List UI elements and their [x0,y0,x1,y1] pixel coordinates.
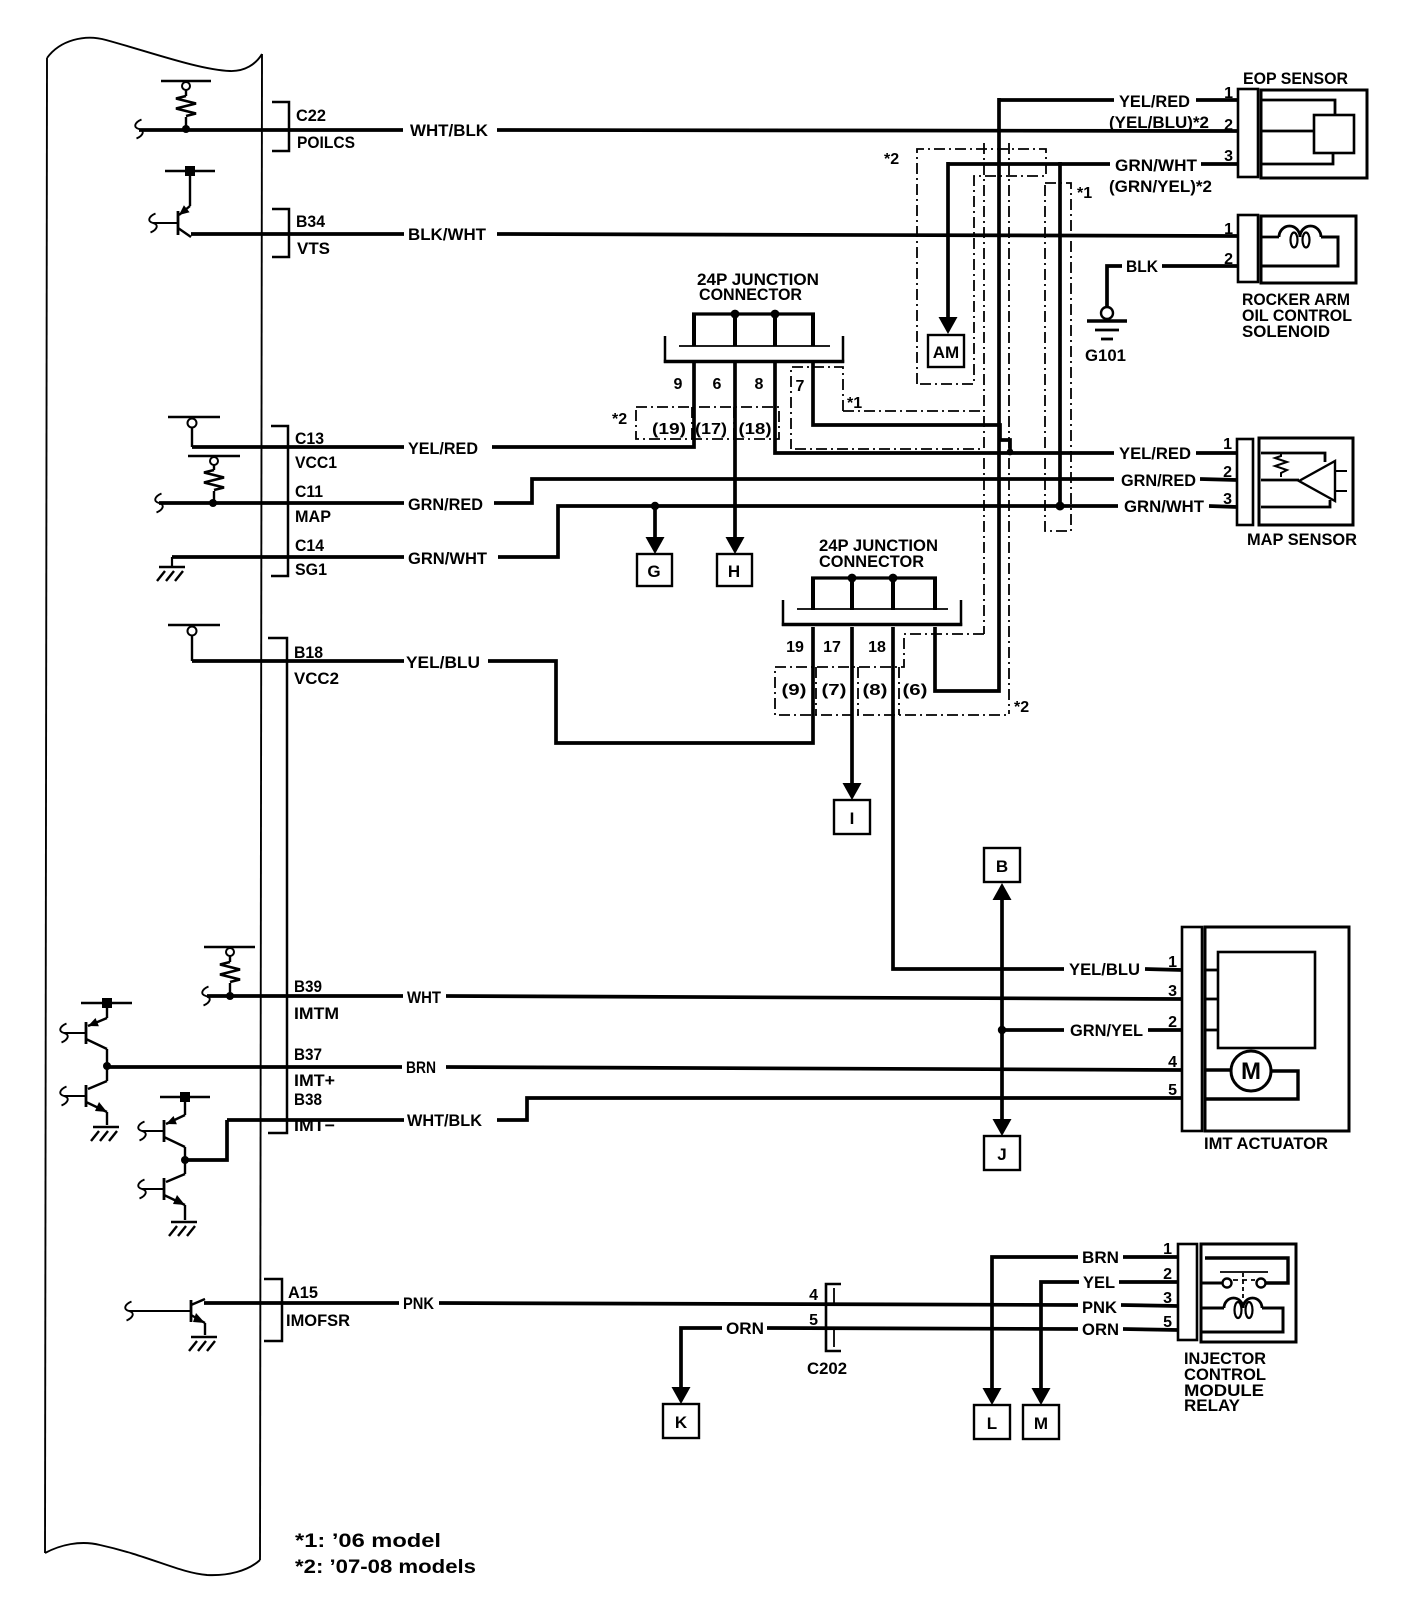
svg-text:GRN/YEL: GRN/YEL [1070,1021,1143,1040]
wire vertical YEL/RED drop to junction pin (6) [935,98,999,691]
wire GRN/WHT *1 branch [1058,162,1062,503]
svg-text:H: H [728,562,740,581]
wire junction pin 7 *1 jog to YEL/RED [813,363,1010,452]
connector arrow M [1032,1388,1051,1405]
rocker arm oil control solenoid body with inductor [1261,216,1356,283]
pull-up resistor at B39 [204,947,255,994]
dash-dot outline *2 around junction row (9)(7)(8)(6) [775,634,1009,715]
wire B34 BLK/WHT to solenoid pin 1 [191,232,404,236]
connector bracket A15/IMOFSR [264,1279,282,1341]
wire H branch from junction pin 6 [733,363,737,539]
injector control module relay body [1201,1244,1296,1342]
wire B-J vertical [1000,898,1004,1122]
svg-text:(18): (18) [739,421,772,438]
svg-text:C13: C13 [295,429,324,448]
svg-text:WHT/BLK: WHT/BLK [407,1111,483,1130]
wire I branch from junction pin 17 [850,627,854,786]
svg-text:(7): (7) [822,682,847,699]
ground at C14 [171,557,173,566]
svg-text:PNK: PNK [1082,1298,1118,1317]
MAP sensor body [1259,438,1353,525]
wire GRN/YEL to IMT pin 2 [1002,1028,1064,1032]
svg-text:5: 5 [809,1312,818,1329]
wire B38 WHT/BLK to IMT pin 5 [227,1118,404,1122]
svg-text:K: K [675,1413,688,1432]
svg-text:*1: *1 [1077,185,1092,202]
IMT actuator body [1205,927,1349,1131]
junction dot GRN/WHT G tap [651,502,659,510]
svg-text:2: 2 [1224,251,1233,268]
svg-text:ORN: ORN [726,1319,764,1338]
connector arrow I [843,783,862,800]
svg-text:SOLENOID: SOLENOID [1242,322,1330,341]
svg-text:YEL/RED: YEL/RED [1119,92,1190,111]
svg-text:4: 4 [809,1287,818,1304]
svg-text:IMTM: IMTM [294,1004,339,1023]
pull-up resistor at C11 [188,456,240,501]
ground G101 [1087,307,1127,339]
dash-dot box *2 around AM branch [917,149,1046,384]
svg-text:8: 8 [755,376,764,393]
svg-text:GRN/RED: GRN/RED [408,495,483,514]
EOP sensor body [1261,90,1367,178]
svg-text:7: 7 [796,378,805,395]
svg-text:BLK: BLK [1126,257,1159,276]
svg-text:4: 4 [1168,1054,1177,1071]
svg-text:2: 2 [1168,1014,1177,1031]
injector control module relay connector bracket [1178,1244,1197,1340]
dash-dot box *1 around junction pin 7 [791,367,843,449]
svg-text:*2: *2 [884,151,899,168]
svg-text:G: G [647,562,660,581]
svg-text:SG1: SG1 [295,560,327,579]
wire AM branch [946,162,950,320]
wire junction pin 8 YEL/RED to MAP pin 1 [775,363,1114,453]
svg-text:M: M [1034,1414,1048,1433]
svg-text:J: J [997,1145,1006,1164]
connector bracket B18/B39/B37/B38 [268,638,287,1133]
connector bracket C13/C11/C14 [271,426,288,576]
svg-text:*1: ’06 model: *1: ’06 model [295,1531,441,1552]
in-line connector C202 [826,1284,841,1351]
svg-text:(GRN/YEL)*2: (GRN/YEL)*2 [1109,177,1212,196]
dash-dot corridor *1 of pin-7 wire [843,410,982,412]
junction dot *1 GRN/WHT meets MAP wire [1056,502,1065,511]
svg-text:1: 1 [1168,954,1177,971]
connector arrow G [646,537,665,554]
junction dot pin7 joins YEL/RED [1007,449,1014,456]
connector bracket C22/POILCS [272,102,289,151]
transistor Q6 at A15 [129,1299,205,1335]
wire junction pin 18 YEL/BLU to IMT pin 1 [893,627,1064,969]
svg-text:VCC2: VCC2 [294,669,339,688]
svg-text:YEL/BLU: YEL/BLU [406,653,480,672]
svg-text:(9): (9) [782,682,807,699]
svg-text:YEL/RED: YEL/RED [1119,444,1191,463]
svg-text:YEL: YEL [1083,1273,1115,1292]
wire YEL relay pin 2 to M [1041,1282,1079,1390]
svg-text:PNK: PNK [403,1294,435,1313]
svg-text:1: 1 [1224,85,1233,102]
connector arrow L [983,1388,1002,1405]
ECM/PCM module outline (torn-edge box) [45,38,262,1575]
svg-text:GRN/WHT: GRN/WHT [408,549,488,568]
svg-text:3: 3 [1168,983,1177,1000]
svg-text:(8): (8) [863,682,888,699]
svg-text:(6): (6) [903,682,928,699]
dash-dot box *2 around junction pins (19)(17)(18) [636,407,779,439]
connector arrow K [672,1387,691,1404]
svg-text:5: 5 [1168,1082,1177,1099]
dash-dot corridor *2 of EOP YEL/RED drop [983,143,985,634]
svg-text:5: 5 [1163,1314,1172,1331]
svg-text:1: 1 [1224,221,1233,238]
svg-text:POILCS: POILCS [297,133,355,152]
24P junction connector (upper) [664,314,844,363]
svg-text:*2: *2 [1014,699,1029,716]
svg-text:17: 17 [823,639,841,656]
wire C14 GRN/WHT to MAP pin 3 [172,555,404,559]
IMT actuator connector bracket [1182,927,1202,1131]
svg-text:A15: A15 [288,1283,318,1302]
wire BRN relay pin 1 to L [992,1257,1078,1390]
svg-text:C22: C22 [296,106,326,125]
svg-text:3: 3 [1224,148,1233,165]
svg-text:2: 2 [1224,117,1233,134]
wire GRN/WHT EOP pin 3 [1201,162,1238,166]
svg-text:WHT/BLK: WHT/BLK [410,121,489,140]
connector arrow AM [939,317,958,334]
connector arrow B (up) [993,883,1012,900]
wire C13 YEL/RED to junction pin 9 [192,445,404,449]
svg-text:BRN: BRN [1082,1248,1119,1267]
pull-up at B18 [168,625,220,661]
svg-text:IMT−: IMT− [294,1116,335,1135]
svg-text:IMT ACTUATOR: IMT ACTUATOR [1204,1134,1328,1153]
svg-text:*2: ’07-08 models: *2: ’07-08 models [295,1557,476,1578]
svg-text:B: B [996,857,1008,876]
wire stub hook at C22 input [135,120,142,139]
wire C11 GRN/RED to MAP pin 2 [159,501,404,505]
connector arrow J [993,1119,1012,1136]
svg-text:*2: *2 [612,411,627,428]
svg-text:L: L [987,1414,997,1433]
MAP sensor connector bracket [1237,439,1253,525]
transistor Q1 at B34 [153,171,215,237]
pull-up at C13 [168,417,220,447]
svg-text:CONNECTOR: CONNECTOR [819,552,924,571]
svg-text:VTS: VTS [297,239,330,258]
svg-text:AM: AM [933,343,959,362]
24P junction connector (lower) [782,578,962,626]
junction dot GRN/YEL tap on B-J line [998,1026,1006,1034]
transistor pair Q2/Q3 at B37 [64,1003,132,1125]
svg-text:6: 6 [713,376,722,393]
svg-text:2: 2 [1223,464,1232,481]
connector bracket B34/VTS [272,209,289,257]
wire C22 WHT/BLK to EOP pin 2 [139,128,403,132]
svg-text:*1: *1 [847,395,862,412]
svg-text:3: 3 [1223,491,1232,508]
svg-text:IMT+: IMT+ [294,1071,335,1090]
svg-text:WHT: WHT [407,988,442,1007]
wire B39 WHT to IMT pin 3 [207,994,403,998]
svg-text:B39: B39 [294,977,322,996]
svg-text:3: 3 [1163,1290,1172,1307]
svg-text:B37: B37 [294,1045,322,1064]
svg-text:G101: G101 [1085,346,1126,365]
svg-text:2: 2 [1163,1266,1172,1283]
svg-text:YEL/BLU: YEL/BLU [1069,960,1140,979]
svg-text:IMOFSR: IMOFSR [286,1311,350,1330]
svg-text:CONNECTOR: CONNECTOR [699,285,802,304]
wire YEL/RED EOP pin 1 [1196,98,1238,102]
wire G branch [653,506,657,539]
svg-text:18: 18 [868,639,886,656]
svg-text:B38: B38 [294,1090,322,1109]
wire ORN to relay pin 5 [681,1328,722,1389]
svg-text:B34: B34 [296,212,326,231]
svg-text:ORN: ORN [1082,1320,1119,1339]
wire B18 YEL/BLU to junction pin 19 [192,659,404,663]
wire A15 PNK to relay pin 3 [204,1301,399,1305]
svg-text:1: 1 [1223,436,1232,453]
svg-text:I: I [850,809,855,828]
EOP sensor connector bracket [1238,89,1258,177]
svg-text:GRN/WHT: GRN/WHT [1124,497,1205,516]
svg-text:GRN/RED: GRN/RED [1121,471,1196,490]
transistor pair Q4/Q5 at B38 [142,1097,210,1220]
internal jog wire from Q4 emitter to B38 pin [185,1120,227,1160]
pull-up resistor at C22 [161,81,211,127]
svg-text:BLK/WHT: BLK/WHT [408,225,487,244]
svg-text:YEL/RED: YEL/RED [408,439,478,458]
dash-dot box *1 around GRN/WHT branch [1045,183,1071,531]
svg-text:C11: C11 [295,482,323,501]
svg-text:BRN: BRN [406,1058,436,1077]
svg-text:C14: C14 [295,536,325,555]
connector arrow H [726,537,745,554]
svg-text:C202: C202 [807,1359,847,1378]
svg-text:M: M [1241,1058,1261,1085]
svg-text:1: 1 [1163,1241,1172,1258]
rocker arm oil control solenoid connector bracket [1238,215,1258,282]
svg-text:EOP SENSOR: EOP SENSOR [1243,69,1348,88]
svg-text:(17): (17) [695,421,727,438]
svg-text:MAP SENSOR: MAP SENSOR [1247,530,1357,549]
svg-text:MAP: MAP [295,507,331,526]
wire B37 BRN to IMT pin 4 [107,1065,402,1069]
svg-text:(19): (19) [652,421,686,438]
wire BLK to G101 [1107,266,1122,307]
svg-text:19: 19 [786,639,804,656]
svg-text:9: 9 [674,376,683,393]
svg-text:VCC1: VCC1 [295,453,337,472]
svg-text:(YEL/BLU)*2: (YEL/BLU)*2 [1109,113,1209,132]
motor M inside IMT actuator [1231,1051,1271,1091]
svg-text:GRN/WHT: GRN/WHT [1115,156,1198,175]
svg-text:B18: B18 [294,643,323,662]
svg-text:RELAY: RELAY [1184,1396,1241,1415]
